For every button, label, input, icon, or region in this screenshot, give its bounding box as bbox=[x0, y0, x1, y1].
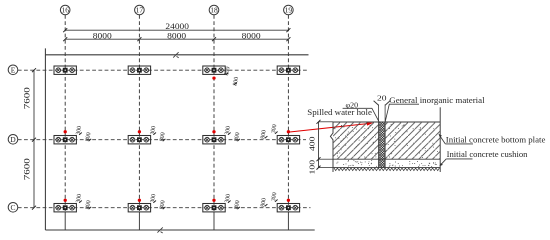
detail: slab/cushion interface edge bbox=[333, 158, 440, 160]
pile cap C17 bbox=[128, 204, 150, 212]
pile cap D19 bbox=[277, 136, 299, 144]
svg-text:100: 100 bbox=[308, 160, 317, 175]
pile cap E17 bbox=[128, 66, 150, 74]
grid bubble D bbox=[8, 135, 18, 145]
pile cap D18 bbox=[203, 136, 225, 144]
pile cap E19 bbox=[277, 66, 299, 74]
red leader line from D19 to detail bbox=[289, 123, 374, 133]
detail: slab top edge bbox=[333, 121, 440, 123]
dimension 400/100 (detail left) bbox=[308, 120, 333, 175]
grid bubble E bbox=[8, 65, 18, 75]
label Initial concrete cushion with leader arrow bbox=[439, 150, 528, 166]
node marker D17 (red dot) bbox=[138, 130, 141, 133]
grid axis line D (horizontal) bbox=[18, 139, 306, 141]
break mark on top border bbox=[173, 52, 179, 58]
node marker D19 (red dot) bbox=[287, 130, 290, 133]
pile cap E18 bbox=[203, 66, 225, 74]
pile cap C18 bbox=[203, 204, 225, 212]
svg-text:Initial concrete bottom plate: Initial concrete bottom plate bbox=[446, 135, 546, 144]
svg-text:17: 17 bbox=[136, 5, 144, 14]
node marker C19 (red dot) bbox=[287, 199, 290, 202]
grid axis line 18 (vertical) bbox=[213, 15, 215, 230]
detail: aggregate speckles in cushion bbox=[336, 160, 436, 167]
svg-text:7600: 7600 bbox=[23, 158, 32, 180]
svg-text:7600: 7600 bbox=[23, 87, 32, 109]
detail: concrete slab hatch (left of hole) bbox=[333, 122, 379, 159]
pile cap D17 bbox=[128, 136, 150, 144]
wall top border line bbox=[45, 54, 308, 56]
grid axis line E (horizontal) bbox=[18, 69, 309, 71]
svg-text:Spilled water hole: Spilled water hole bbox=[307, 108, 372, 117]
svg-text:General inorganic material: General inorganic material bbox=[389, 96, 485, 105]
svg-text:16: 16 bbox=[61, 5, 69, 14]
node marker D16 (red dot) bbox=[64, 130, 67, 133]
pile dimension labels 300/800 at D16 bbox=[75, 125, 93, 141]
grid bubble 17 bbox=[135, 5, 145, 15]
wall left border line bbox=[44, 48, 46, 230]
grid bubble 19 bbox=[284, 5, 294, 15]
node marker C18 (red dot) bbox=[212, 199, 215, 202]
pile cap C16 bbox=[54, 204, 76, 212]
dimension line 7600 (E-D and D-C) bbox=[23, 68, 36, 210]
detail: cushion bottom edge bbox=[333, 167, 440, 169]
pile dimension labels 300/800 at D17 bbox=[149, 125, 167, 141]
pile cap D16 bbox=[54, 136, 76, 144]
svg-text:24000: 24000 bbox=[165, 22, 189, 31]
detail: right edge line bbox=[439, 107, 441, 172]
label General inorganic material with leader bbox=[385, 96, 485, 122]
svg-text:E: E bbox=[11, 65, 16, 74]
svg-text:19: 19 bbox=[285, 5, 293, 14]
wall bottom border line bbox=[45, 229, 314, 231]
node marker C16 (red dot) bbox=[64, 199, 67, 202]
grid axis line 16 (vertical) bbox=[64, 15, 66, 230]
break mark on bottom border bbox=[157, 227, 162, 233]
grid bubble C bbox=[8, 203, 18, 213]
grid axis line 17 (vertical) bbox=[138, 15, 140, 230]
pile dimension labels 300/800 at C17 bbox=[149, 193, 167, 209]
grid axis line 19 (vertical) bbox=[287, 15, 289, 230]
svg-text:8000: 8000 bbox=[167, 32, 186, 41]
node marker E18 (red dot) bbox=[212, 76, 215, 79]
pile cap C19 bbox=[277, 204, 299, 212]
svg-text:8000: 8000 bbox=[242, 32, 261, 41]
grid bubble 18 bbox=[209, 5, 219, 15]
pile dimension labels 300/800 at E18 bbox=[223, 66, 240, 86]
svg-text:400: 400 bbox=[308, 136, 317, 151]
svg-text:D: D bbox=[10, 135, 16, 144]
node marker D18 (red dot) bbox=[212, 130, 215, 133]
dimension 20 (hole width) bbox=[374, 93, 391, 121]
pile cap E16 bbox=[54, 66, 76, 74]
label φ20 with leader bbox=[343, 100, 379, 121]
pile dimension labels 300/800 at C16 bbox=[75, 193, 93, 209]
pile dimension labels 300/800 at C19 bbox=[259, 192, 278, 208]
detail: spilled water hole fill (dense hatch) bbox=[379, 122, 386, 168]
pile dimension labels 300/800 at C18 bbox=[223, 193, 241, 209]
svg-text:C: C bbox=[10, 203, 15, 212]
grid axis line C (horizontal) bbox=[18, 207, 311, 209]
detail: left broken edge bbox=[330, 122, 333, 172]
detail: concrete slab hatch (right of hole) bbox=[385, 122, 440, 159]
detail: ground sawtooth line under cushion bbox=[334, 168, 439, 171]
node marker C17 (red dot) bbox=[138, 199, 141, 202]
svg-text:8000: 8000 bbox=[93, 32, 112, 41]
svg-text:Initial concrete cushion: Initial concrete cushion bbox=[447, 150, 529, 159]
detail: aggregate speckles in slab bbox=[335, 124, 438, 158]
grid bubble 16 bbox=[60, 5, 70, 15]
label Initial concrete bottom plate with leader arrow bbox=[438, 134, 545, 145]
dimension line 8000 spans bbox=[63, 32, 290, 42]
dimension line 24000 (total span) bbox=[63, 22, 290, 32]
svg-text:20: 20 bbox=[377, 93, 387, 102]
svg-text:18: 18 bbox=[210, 5, 218, 14]
pile dimension labels 300/800 at D19 bbox=[259, 124, 278, 140]
pile dimension labels 300/800 at D18 bbox=[223, 125, 241, 141]
